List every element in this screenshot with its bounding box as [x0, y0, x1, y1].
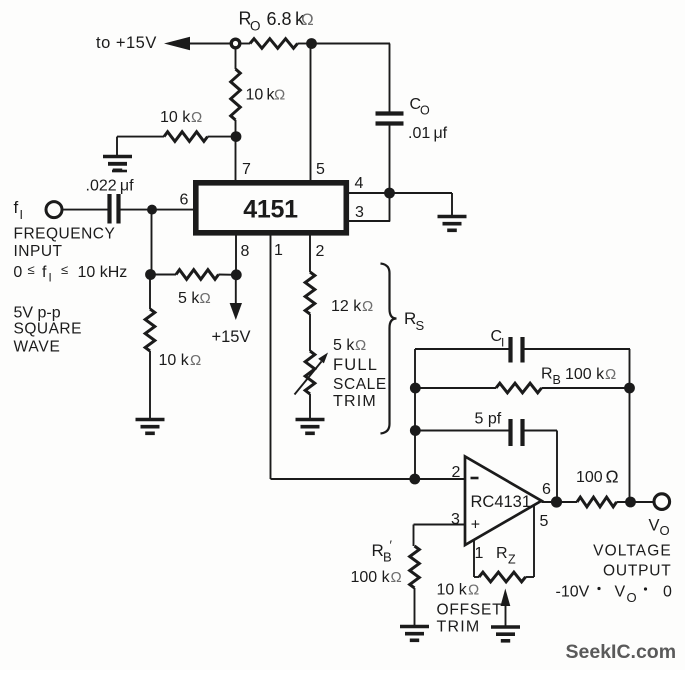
svg-text:0: 0	[663, 584, 672, 601]
svg-text:INPUT: INPUT	[14, 243, 63, 260]
svg-text:5 pf: 5 pf	[475, 411, 502, 428]
svg-text:TRIM: TRIM	[333, 393, 377, 410]
svg-text:FREQUENCY: FREQUENCY	[14, 226, 116, 243]
svg-text:6: 6	[180, 192, 189, 209]
svg-text:R: R	[541, 366, 553, 383]
svg-text:100 k: 100 k	[351, 569, 391, 586]
svg-text:Z: Z	[508, 553, 516, 567]
svg-text:100: 100	[576, 469, 603, 486]
svg-text:to +15V: to +15V	[96, 34, 157, 52]
svg-text:R: R	[404, 309, 416, 328]
svg-text:Ω: Ω	[190, 352, 201, 369]
svg-text:0: 0	[13, 264, 22, 281]
svg-text:3: 3	[355, 204, 364, 221]
svg-text:I: I	[49, 273, 52, 285]
svg-text:4151: 4151	[243, 196, 298, 224]
svg-text:Ω: Ω	[200, 290, 211, 307]
svg-text:OUTPUT: OUTPUT	[603, 563, 672, 580]
svg-text:Ω: Ω	[362, 298, 373, 315]
svg-text:O: O	[420, 104, 430, 118]
svg-text:V: V	[615, 584, 626, 601]
svg-text:≤: ≤	[28, 262, 35, 277]
svg-text:10 kHz: 10 kHz	[78, 264, 128, 281]
svg-text:Ω: Ω	[191, 109, 202, 126]
svg-text:-10V: -10V	[556, 584, 590, 601]
svg-text:4: 4	[355, 175, 364, 192]
svg-text:f: f	[14, 198, 19, 217]
svg-text:SeekIC.com: SeekIC.com	[566, 641, 677, 663]
svg-text:Ω: Ω	[606, 467, 619, 487]
svg-text:O: O	[250, 19, 261, 34]
svg-text:10 k: 10 k	[437, 582, 468, 599]
svg-text:Ω: Ω	[468, 582, 479, 599]
svg-text:I: I	[20, 208, 23, 222]
svg-text:8: 8	[241, 243, 250, 260]
svg-text:TRIM: TRIM	[437, 619, 481, 636]
svg-text:5: 5	[540, 513, 549, 530]
svg-text:.01 μf: .01 μf	[408, 125, 448, 142]
svg-text:10 k: 10 k	[246, 87, 276, 104]
svg-text:10 k: 10 k	[160, 109, 191, 126]
svg-text:SCALE: SCALE	[333, 376, 387, 393]
svg-text:5 k: 5 k	[178, 290, 200, 307]
svg-text:SQUARE: SQUARE	[14, 321, 82, 338]
svg-text:≤: ≤	[61, 262, 68, 277]
svg-text:Ω: Ω	[274, 87, 285, 104]
svg-text:12 k: 12 k	[331, 298, 362, 315]
svg-text:B: B	[553, 373, 561, 387]
svg-text:2: 2	[316, 243, 325, 260]
svg-text:.022 μf: .022 μf	[86, 178, 135, 195]
svg-text:V: V	[649, 517, 660, 535]
svg-text:1: 1	[274, 242, 283, 259]
svg-text:5: 5	[316, 161, 325, 178]
svg-text:OFFSET: OFFSET	[437, 602, 503, 619]
svg-text:Ω: Ω	[301, 10, 314, 29]
svg-text:RC4131: RC4131	[471, 493, 532, 511]
svg-text:WAVE: WAVE	[14, 339, 61, 356]
svg-text:S: S	[416, 318, 425, 333]
svg-text:f: f	[42, 264, 47, 281]
svg-text:FULL: FULL	[333, 356, 378, 374]
svg-text:Ω: Ω	[605, 366, 616, 383]
svg-text:10 k: 10 k	[159, 352, 190, 369]
svg-text:+: +	[471, 517, 480, 534]
svg-text:5V p-p: 5V p-p	[14, 305, 61, 322]
svg-text:2: 2	[452, 464, 461, 481]
svg-text:5 k: 5 k	[333, 337, 355, 354]
svg-text:7: 7	[242, 161, 251, 178]
svg-text:R: R	[372, 541, 384, 560]
svg-text:100 k: 100 k	[565, 366, 605, 383]
svg-text:R: R	[496, 545, 508, 562]
svg-text:1: 1	[475, 545, 484, 562]
svg-text:Ω: Ω	[355, 337, 366, 354]
svg-text:+15V: +15V	[212, 328, 251, 346]
svg-text:6.8 k: 6.8 k	[267, 9, 306, 29]
svg-text:I: I	[501, 336, 504, 350]
svg-text:O: O	[627, 590, 637, 605]
svg-text:VOLTAGE: VOLTAGE	[593, 543, 672, 560]
svg-text:′: ′	[390, 538, 393, 553]
svg-text:Ω: Ω	[391, 569, 402, 586]
svg-text:6: 6	[542, 481, 551, 498]
svg-text:O: O	[660, 523, 670, 538]
